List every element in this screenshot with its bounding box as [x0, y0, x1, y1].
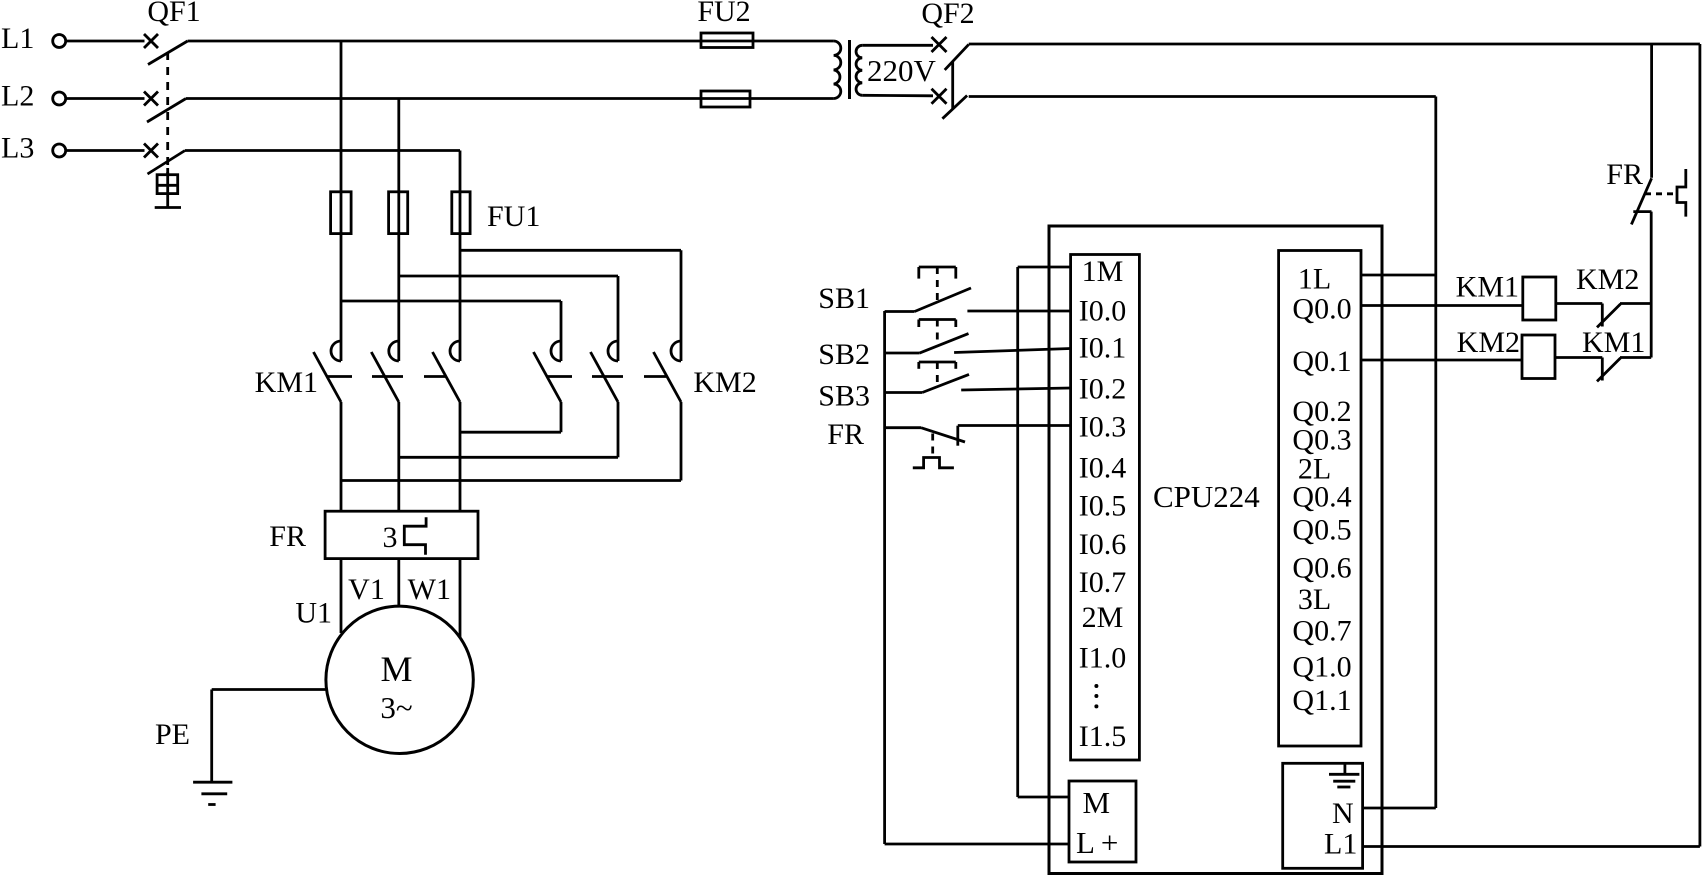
svg-text:L3: L3 — [1, 132, 34, 165]
svg-text:I0.4: I0.4 — [1079, 452, 1127, 485]
svg-text:Q0.6: Q0.6 — [1292, 552, 1351, 585]
svg-text:KM2: KM2 — [1457, 326, 1520, 359]
svg-text:PE: PE — [155, 718, 190, 751]
svg-text:KM1: KM1 — [1456, 271, 1519, 304]
svg-text:1L: 1L — [1298, 263, 1331, 296]
svg-text:M: M — [1083, 785, 1111, 820]
svg-text:SB3: SB3 — [818, 380, 870, 413]
svg-text:QF2: QF2 — [921, 0, 974, 30]
svg-text:FR: FR — [269, 520, 306, 553]
svg-text:220V: 220V — [867, 53, 937, 88]
svg-text:FR: FR — [1606, 158, 1643, 191]
svg-text:Q0.5: Q0.5 — [1292, 514, 1351, 547]
svg-text:L1: L1 — [1324, 828, 1357, 861]
svg-text:QF1: QF1 — [147, 0, 200, 28]
svg-text:Q1.1: Q1.1 — [1292, 684, 1351, 717]
svg-text:SB1: SB1 — [818, 282, 870, 315]
svg-text:Q0.1: Q0.1 — [1292, 345, 1351, 378]
svg-text:KM2: KM2 — [1576, 263, 1639, 296]
svg-text:KM1: KM1 — [1582, 326, 1645, 359]
svg-text:U1: U1 — [295, 597, 332, 630]
svg-text:I1.0: I1.0 — [1079, 642, 1127, 675]
svg-text:I0.6: I0.6 — [1079, 528, 1127, 561]
svg-text:I1.5: I1.5 — [1079, 720, 1127, 753]
svg-text:I0.2: I0.2 — [1079, 372, 1127, 405]
svg-text:KM2: KM2 — [693, 366, 756, 399]
svg-text:Q0.0: Q0.0 — [1292, 293, 1351, 326]
svg-text:I0.1: I0.1 — [1079, 332, 1127, 365]
svg-text:KM1: KM1 — [255, 366, 318, 399]
svg-text:SB2: SB2 — [818, 338, 870, 371]
svg-text:CPU224: CPU224 — [1153, 479, 1260, 514]
svg-text:3L: 3L — [1298, 583, 1331, 616]
svg-text:1M: 1M — [1082, 255, 1124, 288]
svg-text:Q0.7: Q0.7 — [1292, 615, 1351, 648]
svg-text:FU2: FU2 — [697, 0, 750, 28]
svg-text:Q1.0: Q1.0 — [1292, 651, 1351, 684]
svg-text:L+: L+ — [1076, 825, 1124, 860]
svg-text:2M: 2M — [1082, 601, 1124, 634]
svg-text:I0.0: I0.0 — [1079, 295, 1127, 328]
svg-text:Q0.4: Q0.4 — [1292, 481, 1351, 514]
svg-text:L1: L1 — [1, 22, 34, 55]
svg-text:FR: FR — [827, 418, 864, 451]
svg-text:N: N — [1332, 797, 1354, 830]
svg-text:V1: V1 — [348, 573, 385, 606]
svg-text:M: M — [380, 649, 412, 689]
svg-text:I0.3: I0.3 — [1079, 411, 1127, 444]
svg-text:3~: 3~ — [380, 690, 412, 725]
svg-text:I0.5: I0.5 — [1079, 489, 1127, 522]
svg-text:I0.7: I0.7 — [1079, 566, 1127, 599]
svg-text:FU1: FU1 — [487, 200, 540, 233]
svg-text:L2: L2 — [1, 80, 34, 113]
svg-text:3: 3 — [383, 521, 398, 554]
svg-text:W1: W1 — [408, 573, 451, 606]
